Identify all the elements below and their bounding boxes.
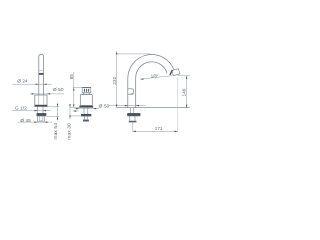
handle ring line bbox=[39, 70, 44, 72]
svg-text:Ø 24: Ø 24 bbox=[17, 79, 28, 84]
stem below nut bbox=[129, 116, 131, 121]
bottom bar bbox=[83, 120, 89, 122]
dim 140 bbox=[186, 76, 188, 108]
svg-text:max 30: max 30 bbox=[67, 123, 73, 140]
dim Ø24 bbox=[12, 83, 51, 85]
svg-text:232: 232 bbox=[112, 76, 117, 84]
svg-text:max 54: max 54 bbox=[53, 123, 59, 140]
svg-text:G 1/2: G 1/2 bbox=[15, 105, 27, 110]
dim 232 bbox=[116, 51, 118, 107]
base flange bbox=[79, 106, 93, 108]
body Ø50 bbox=[35, 95, 47, 106]
deck line bbox=[117, 107, 190, 109]
gooseneck inner arc bbox=[136, 62, 167, 78]
dim 171 bbox=[133, 130, 178, 132]
dim Ø45 bbox=[18, 121, 52, 123]
svg-text:140: 140 bbox=[181, 88, 186, 96]
leader 1/8" bbox=[140, 76, 172, 79]
aerator body bbox=[172, 69, 180, 76]
below-deck shank bbox=[130, 108, 132, 114]
nut Ø45 bbox=[37, 113, 47, 116]
handle cylinder Ø24 bbox=[39, 55, 44, 96]
svg-text:1/8": 1/8" bbox=[151, 73, 159, 78]
inner shaft lines in body bbox=[38, 95, 40, 105]
svg-text:Ø 50: Ø 50 bbox=[53, 87, 64, 92]
knurled cap bbox=[82, 87, 91, 93]
nut bbox=[81, 114, 91, 116]
svg-text:171: 171 bbox=[155, 126, 163, 131]
joint step on riser bbox=[128, 89, 134, 94]
square body bbox=[80, 95, 92, 106]
lower piece below nut bbox=[37, 116, 44, 121]
svg-text:85: 85 bbox=[69, 74, 74, 80]
shank G1/2 below deck bbox=[37, 107, 39, 114]
riser outer walls bbox=[127, 78, 129, 108]
small leftward arrow mark bbox=[73, 110, 78, 112]
dim Ø50 right bbox=[109, 105, 146, 107]
body bottom dark flange bbox=[35, 105, 48, 107]
bottom bar bbox=[129, 121, 137, 123]
dim Ø50 (left) bbox=[30, 93, 64, 95]
svg-text:Ø 45: Ø 45 bbox=[20, 118, 31, 123]
shank bbox=[83, 108, 85, 114]
dim max 54 bbox=[57, 104, 59, 121]
below-deck nut bbox=[127, 113, 140, 116]
cap neck bbox=[82, 93, 84, 95]
tube end cap (dark) bbox=[170, 70, 173, 75]
dim G 1/2 bbox=[12, 110, 51, 112]
dim 85 height bbox=[73, 72, 75, 108]
dim Ø50 middle bbox=[75, 108, 100, 110]
handle dark band bbox=[39, 73, 44, 75]
gooseneck outer arc bbox=[128, 55, 174, 79]
dim max 30 bbox=[69, 104, 71, 120]
stem below nut bbox=[84, 116, 86, 119]
svg-text:Ø 50: Ø 50 bbox=[99, 103, 110, 108]
